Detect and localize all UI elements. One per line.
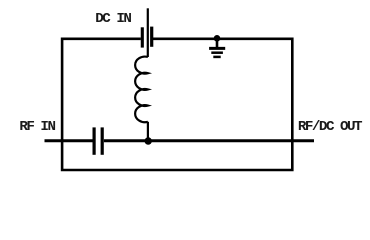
ground bar 1 xyxy=(209,47,225,50)
capacitor C2 (DC block) right plate xyxy=(101,127,104,154)
wire (RF IN lead to blocking cap) xyxy=(45,139,93,142)
capacitor C1 (DC feed-through bypass) right plate xyxy=(150,27,153,47)
ground bar 3 xyxy=(213,56,220,59)
ground stem xyxy=(216,39,219,47)
capacitor C1 (DC feed-through bypass) left plate xyxy=(141,27,144,47)
wire (blocking cap to RF/DC OUT) xyxy=(104,139,314,142)
ground bar 2 xyxy=(211,51,223,54)
svg-text:RF/DC OUT: RF/DC OUT xyxy=(298,119,363,135)
junction dot (ground tap on box wall) xyxy=(214,35,221,42)
junction dot (inductor to RF line node) xyxy=(145,137,152,144)
wire (DC IN lead down through feed-through) xyxy=(147,8,149,57)
svg-text:DC IN: DC IN xyxy=(95,11,131,27)
svg-text:RF IN: RF IN xyxy=(19,119,55,135)
capacitor C2 (DC block) left plate xyxy=(92,127,95,154)
inductor L1 (RF choke) xyxy=(135,57,148,123)
wire (inductor bottom lead to RF line) xyxy=(147,122,149,141)
shield box (left wall, bottom wall, right wall, top wall with gap for feedthru cap) xyxy=(62,39,292,170)
